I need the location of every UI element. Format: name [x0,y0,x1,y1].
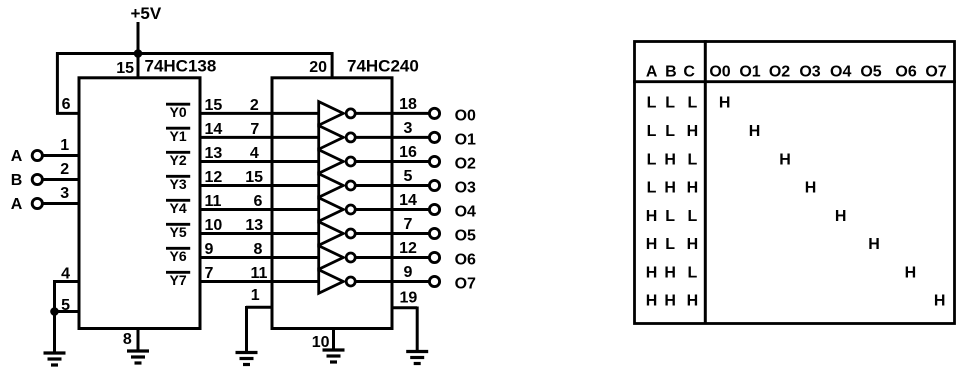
svg-text:H: H [835,208,847,225]
svg-text:4: 4 [250,145,259,162]
svg-text:1: 1 [251,287,260,304]
wire input A to 74HC138 pin 3 [44,202,80,205]
svg-text:H: H [687,293,699,310]
IC U1 74HC138 body [79,78,200,329]
inverter U2 channel 4 bubble [346,205,355,214]
signal Y1 label with overbar [166,127,190,130]
node O7 terminal circle [429,276,439,286]
wire 74HC240 pin 19 stub [392,306,417,309]
inverter U2 channel 6 triangle [319,246,344,270]
wire Y4 output (74HC138 pin 11) to 74HC240 input pin 6 [199,208,321,211]
svg-text:14: 14 [205,121,223,138]
svg-text:L: L [665,95,675,112]
wire +5V vertical stub into 74HC138 pin 15/VCC [137,22,140,80]
svg-text:14: 14 [399,192,417,209]
svg-text:8: 8 [254,241,263,258]
svg-text:Y2: Y2 [170,152,187,168]
truth table header separator line [633,80,956,83]
svg-text:Y4: Y4 [170,200,187,216]
wire Y1 output (74HC138 pin 14) to 74HC240 input pin 7 [199,136,321,139]
wire 74HC240 pin 1 stub [246,306,272,309]
svg-text:H: H [646,293,658,310]
node O3 terminal circle [429,180,439,190]
svg-text:16: 16 [399,144,417,161]
inverter U2 channel 5 triangle [319,222,344,246]
svg-text:L: L [688,264,698,281]
svg-text:L: L [688,208,698,225]
node B input terminal circle (pin 2) [32,174,42,184]
wire Y5 output (74HC138 pin 10) to 74HC240 input pin 13 [199,232,321,235]
signal Y3 label with overbar [166,175,190,178]
svg-text:O3: O3 [799,64,820,81]
truth table vertical divider [704,40,707,324]
inverter U2 channel 2 bubble [346,157,355,166]
wire +5V rail down to 74HC138 pin 6 (vertical) [56,52,59,113]
svg-text:H: H [664,293,676,310]
svg-text:11: 11 [251,265,268,282]
svg-text:15: 15 [205,97,223,114]
svg-text:7: 7 [205,265,214,282]
svg-text:Y6: Y6 [170,248,187,264]
wire into 74HC138 pin 6 (horizontal) [56,112,79,115]
svg-text:H: H [905,264,917,281]
svg-text:3: 3 [60,185,69,202]
svg-text:5: 5 [404,168,413,185]
wire Y2 output (74HC138 pin 13) to 74HC240 input pin 4 [199,160,321,163]
svg-text:O6: O6 [455,252,476,269]
inverter U2 channel 1 bubble [346,133,355,142]
svg-text:Y5: Y5 [170,224,187,240]
signal Y5 label with overbar [166,223,190,226]
svg-text:O4: O4 [455,204,476,221]
svg-text:O7: O7 [925,64,946,81]
wire from +5V rail down to 74HC240 pin 20 [331,52,334,79]
wire inverter 6 output to terminal O6 [356,256,429,259]
svg-text:H: H [664,264,676,281]
signal Y4 label with overbar [166,199,190,202]
wire inverter 1 output to terminal O1 [356,136,429,139]
svg-text:18: 18 [399,96,417,113]
svg-text:O0: O0 [709,64,730,81]
svg-text:H: H [805,180,817,197]
svg-text:19: 19 [400,289,418,306]
svg-text:C: C [683,64,695,81]
svg-text:O4: O4 [830,64,851,81]
inverter U2 channel 3 bubble [346,181,355,190]
truth table outer border [635,42,955,324]
node O5 terminal circle [429,228,439,238]
wire input B to 74HC138 pin 2 [44,178,80,181]
wire 74HC138 pin 5 stub [53,310,79,313]
svg-text:A: A [11,148,23,165]
wire inverter 4 output to terminal O4 [356,208,429,211]
svg-text:O7: O7 [455,276,476,293]
svg-text:O5: O5 [455,228,476,245]
signal Y2 label with overbar [166,151,190,154]
wire vertical pins 4/5 down to ground [53,280,56,353]
svg-text:12: 12 [205,169,223,186]
svg-text:A: A [646,64,658,81]
svg-text:L: L [647,95,657,112]
svg-text:H: H [646,236,658,253]
inverter U2 channel 3 triangle [319,174,344,198]
svg-text:H: H [687,236,699,253]
node A input terminal circle (pin 3) [32,198,42,208]
svg-text:L: L [665,208,675,225]
ground symbol (74HC138 pin 8) [127,349,149,352]
inverter U2 channel 4 triangle [319,198,344,222]
node O6 terminal circle [429,252,439,262]
svg-text:L: L [688,151,698,168]
svg-text:10: 10 [205,217,223,234]
wire Y7 output (74HC138 pin 7) to 74HC240 input pin 11 [199,280,321,283]
inverter U2 channel 0 bubble [346,109,355,118]
signal Y0 label with overbar [166,103,190,106]
svg-text:6: 6 [62,96,71,113]
wire inverter 3 output to terminal O3 [356,184,429,187]
svg-text:Y0: Y0 [170,104,187,120]
svg-text:O0: O0 [455,107,476,124]
wire input A to 74HC138 pin 1 [44,154,80,157]
svg-text:1: 1 [60,137,69,154]
svg-text:L: L [647,123,657,140]
svg-text:L: L [647,151,657,168]
wire +5V power rail [56,52,334,55]
svg-text:O5: O5 [860,64,881,81]
svg-text:L: L [647,180,657,197]
wire 74HC138 pin 4 stub [53,280,79,283]
signal Y7 label with overbar [166,271,190,274]
inverter U2 channel 0 triangle [319,102,344,126]
svg-text:O2: O2 [455,156,476,173]
svg-text:A: A [11,196,23,213]
svg-text:12: 12 [399,240,417,257]
inverter U2 channel 7 bubble [346,277,355,286]
svg-text:+5V: +5V [131,4,162,23]
svg-text:Y3: Y3 [170,176,187,192]
ground symbol (74HC240 pin 10) [323,348,345,351]
junction dot on +5V rail [134,49,143,58]
svg-text:L: L [665,236,675,253]
svg-text:L: L [688,95,698,112]
wire inverter 7 output to terminal O7 [356,280,429,283]
ground symbol (74HC138 pins 4,5) [44,351,66,354]
inverter U2 channel 5 bubble [346,229,355,238]
svg-text:Y1: Y1 [170,128,187,144]
svg-text:7: 7 [404,216,413,233]
svg-text:74HC138: 74HC138 [145,57,217,76]
svg-text:20: 20 [309,59,327,76]
svg-text:B: B [665,64,677,81]
svg-text:7: 7 [250,121,259,138]
svg-text:O6: O6 [895,64,916,81]
svg-text:H: H [664,151,676,168]
inverter U2 channel 7 triangle [319,270,344,294]
svg-text:H: H [749,123,761,140]
svg-text:13: 13 [245,217,263,234]
wire pin 1 down to ground [245,306,248,353]
wire Y0 output (74HC138 pin 15) to 74HC240 input pin 2 [199,112,321,115]
svg-text:2: 2 [250,97,259,114]
svg-text:5: 5 [61,297,70,314]
ground symbol (74HC240 pin 19) [406,350,428,353]
wire inverter 2 output to terminal O2 [356,160,429,163]
signal Y6 label with overbar [166,247,190,250]
svg-text:H: H [868,236,880,253]
node O0 terminal circle [429,108,439,118]
svg-text:H: H [687,123,699,140]
svg-text:74HC240: 74HC240 [347,57,419,76]
inverter U2 channel 2 triangle [319,150,344,174]
svg-text:H: H [646,264,658,281]
wire Y6 output (74HC138 pin 9) to 74HC240 input pin 8 [199,256,321,259]
IC U2 74HC240 body [272,78,392,329]
wire inverter 0 output to terminal O0 [356,112,429,115]
svg-text:13: 13 [205,145,223,162]
svg-text:H: H [687,180,699,197]
ground symbol (74HC240 pin 1) [236,351,258,354]
node A input terminal circle (pin 1) [32,150,42,160]
node O1 terminal circle [429,132,439,142]
svg-text:2: 2 [60,161,69,178]
inverter U2 channel 1 triangle [319,126,344,150]
svg-text:8: 8 [123,331,132,348]
svg-text:O1: O1 [455,131,476,148]
svg-text:6: 6 [254,193,263,210]
svg-text:Y7: Y7 [170,272,187,288]
wire 74HC138 pin 8 to ground [137,328,140,351]
svg-text:H: H [934,293,946,310]
inverter U2 channel 6 bubble [346,253,355,262]
svg-text:11: 11 [205,193,222,210]
svg-text:H: H [779,151,791,168]
wire 74HC240 pin 10 to ground [332,328,335,350]
svg-text:L: L [665,123,675,140]
svg-text:9: 9 [205,241,214,258]
junction dot pin5/ground wire [50,307,59,316]
svg-text:H: H [664,180,676,197]
node O4 terminal circle [429,204,439,214]
svg-text:O2: O2 [769,64,790,81]
svg-text:9: 9 [404,264,413,281]
svg-text:O3: O3 [455,180,476,197]
svg-text:B: B [11,172,23,189]
svg-text:3: 3 [404,120,413,137]
svg-text:H: H [646,208,658,225]
svg-text:4: 4 [61,266,70,283]
svg-text:H: H [719,95,731,112]
svg-text:15: 15 [245,169,263,186]
svg-text:O1: O1 [739,64,760,81]
wire pin 19 down to ground [416,307,419,352]
node O2 terminal circle [429,156,439,166]
wire inverter 5 output to terminal O5 [356,232,429,235]
wire Y3 output (74HC138 pin 12) to 74HC240 input pin 15 [199,184,321,187]
svg-text:15: 15 [116,60,134,77]
